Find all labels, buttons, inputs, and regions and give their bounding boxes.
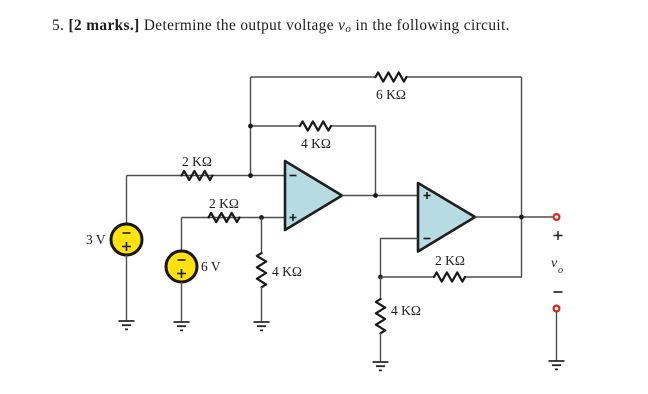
svg-text:v: v	[551, 256, 558, 271]
pin + of 3V source	[122, 242, 131, 251]
ground (below 4K shunt)	[254, 322, 270, 330]
node: junction left vertical with U1 inverting input	[248, 173, 253, 178]
ground (below - terminal)	[549, 361, 565, 369]
svg-text:4 KΩ: 4 KΩ	[272, 264, 302, 279]
svg-text:3 V: 3 V	[86, 232, 106, 247]
wire: 2K feedback rail right segment with right vertical to output node	[465, 77, 522, 277]
resistor 4 KΩ (inner feedback)	[300, 121, 331, 130]
pin - of 3V source	[123, 232, 131, 234]
pin + of U1	[290, 214, 297, 221]
wire: U1 non-inverting input, from 6V branch	[182, 217, 286, 219]
op-amp U1	[285, 161, 342, 230]
resistor 2 KΩ (second input)	[209, 213, 240, 222]
terminal - (vo)	[554, 306, 560, 312]
wire: 4K ground leg top lead	[380, 277, 382, 299]
wire: 4K ground leg bottom lead	[380, 333, 382, 362]
resistor 2 KΩ (top input)	[182, 171, 213, 180]
resistor 2 KΩ (U2 feedback)	[434, 272, 465, 281]
wire: left vertical from top feedback rail down to op-amp U1 inverting input	[250, 77, 252, 176]
svg-text:2 KΩ: 2 KΩ	[209, 196, 239, 211]
wire: 4K shunt top lead	[261, 218, 263, 254]
pin + of 6V source	[177, 269, 186, 278]
node: junction of 6K and 4K rails on left vertical	[248, 124, 253, 129]
label + (output polarity)	[554, 231, 563, 240]
wire: U1 inverting input, from 3V branch	[127, 175, 286, 177]
op-amp U2	[418, 183, 475, 252]
wire: top rail (6K feedback) right segment	[407, 76, 522, 78]
wire: top rail (6K feedback) left segment	[251, 76, 376, 78]
resistor 4 KΩ (shunt at U1 +)	[257, 253, 266, 287]
wire: 2K feedback rail left segment	[381, 276, 435, 278]
wire: lower terminal to ground	[556, 312, 558, 361]
terminal + (vo)	[554, 214, 560, 220]
node: junction of 4K shunt with U1 non-inverting input	[259, 215, 264, 220]
pin - of U2	[424, 238, 431, 240]
node: output node	[519, 215, 524, 220]
ground (below 3V source)	[119, 321, 135, 329]
wire: 4K feedback rail left segment	[251, 125, 301, 127]
pin + of U2	[424, 192, 431, 199]
svg-text:6 KΩ: 6 KΩ	[376, 87, 406, 102]
svg-text:2 KΩ: 2 KΩ	[435, 253, 465, 268]
voltage source 3 V	[111, 224, 142, 255]
svg-text:o: o	[558, 265, 563, 276]
wire: U1 output to U2 non-inverting input	[342, 195, 418, 197]
wire: U2 output to terminal	[475, 216, 553, 218]
node: feedback node at U2	[378, 275, 383, 280]
label - (output polarity)	[554, 291, 563, 293]
resistor 4 KΩ (ground leg at U2 -)	[376, 299, 385, 333]
node: junction of 4K feedback with U1 output	[373, 193, 378, 198]
wire: 4K shunt bottom lead	[261, 287, 263, 322]
wire: 6V source up-lead and to 2K	[181, 218, 183, 251]
svg-text:4 KΩ: 4 KΩ	[391, 303, 421, 318]
wire: 3V source up-lead and to 2K	[126, 176, 128, 224]
wire: 4K feedback rail right segment	[331, 126, 376, 196]
ground (below 6V source)	[174, 322, 190, 330]
wire: U2 inverting input down to feedback node	[381, 239, 419, 278]
svg-text:5. [2 marks.] Determine the ou: 5. [2 marks.] Determine the output volta…	[52, 17, 510, 35]
ground (below U2 4K)	[373, 362, 389, 370]
pin - of U1	[290, 175, 297, 177]
wire: 6V source down-lead	[181, 282, 183, 322]
svg-text:2 KΩ: 2 KΩ	[182, 154, 212, 169]
voltage source 6 V	[166, 251, 197, 282]
svg-text:4 KΩ: 4 KΩ	[301, 136, 331, 151]
resistor 6 KΩ	[376, 72, 407, 81]
svg-text:6 V: 6 V	[201, 259, 221, 274]
pin - of 6V source	[178, 259, 186, 261]
wire: 3V source down-lead	[126, 255, 128, 321]
